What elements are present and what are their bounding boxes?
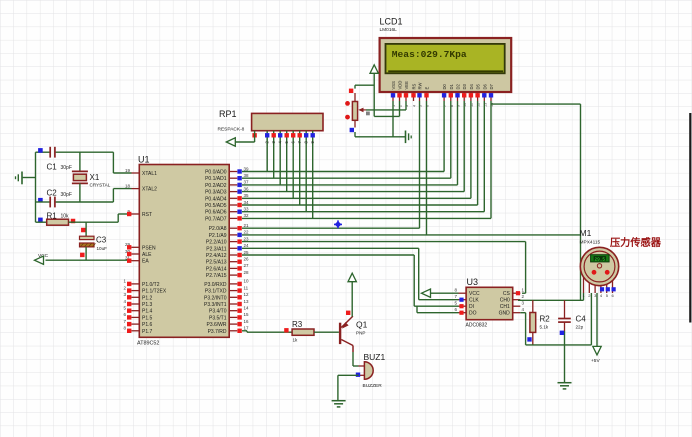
svg-text:24: 24 — [244, 243, 250, 248]
resistor pack RP1 — [218, 109, 324, 218]
svg-text:P1.6: P1.6 — [142, 322, 153, 328]
svg-text:CH1: CH1 — [500, 304, 510, 310]
svg-text:RP1: RP1 — [219, 109, 237, 119]
wire ground rail bottom — [526, 344, 592, 346]
svg-text:P0.7/AD7: P0.7/AD7 — [205, 216, 227, 222]
blue marker R1 row — [38, 218, 43, 223]
svg-text:30pF: 30pF — [61, 192, 72, 198]
svg-text:34: 34 — [244, 200, 250, 205]
svg-text:U1: U1 — [138, 155, 150, 165]
svg-text:P0.5/AD5: P0.5/AD5 — [205, 203, 227, 209]
svg-text:D4: D4 — [469, 83, 474, 89]
svg-text:PNP: PNP — [356, 331, 365, 336]
red marker C3 top — [81, 228, 86, 233]
red marker at Q1 emitter — [346, 311, 350, 315]
svg-text:P0.2/AD2: P0.2/AD2 — [205, 183, 227, 189]
svg-text:P3.7/RD: P3.7/RD — [208, 329, 227, 335]
junction marker (blue cross) — [334, 220, 342, 228]
resistor R1 — [36, 212, 70, 226]
wire P2.2 to U3 CS — [242, 242, 526, 294]
capacitor C3 — [80, 222, 108, 260]
svg-text:MPX4115: MPX4115 — [580, 240, 601, 246]
wire P3.7 to R3 — [242, 331, 292, 332]
op-amp U1 microcontroller AT89C52 — [123, 155, 249, 347]
svg-text:P2.6/A14: P2.6/A14 — [206, 266, 227, 272]
svg-text:X1: X1 — [90, 173, 100, 182]
LCD1 LM016L display — [380, 17, 512, 108]
svg-text:压力传感器: 压力传感器 — [610, 236, 662, 249]
svg-text:38: 38 — [244, 173, 250, 178]
wire R3 to Q1 base — [314, 331, 339, 333]
wire pot wiper to VEE — [366, 101, 406, 110]
wire to XTAL2 — [113, 189, 131, 202]
svg-text:P1.1/T2EX: P1.1/T2EX — [142, 289, 167, 295]
svg-text:D7: D7 — [489, 83, 494, 89]
red marker on R3 wire — [284, 328, 288, 332]
+5V power terminal — [591, 346, 601, 364]
svg-text:32: 32 — [244, 213, 250, 218]
wire U3 GND down — [520, 313, 525, 345]
svg-text:19: 19 — [125, 168, 131, 173]
svg-text:39: 39 — [244, 166, 250, 171]
svg-text:P0.3/AD3: P0.3/AD3 — [205, 190, 227, 196]
ground (right-facing, near LCD) — [406, 131, 412, 144]
power terminal at RP1 — [226, 138, 235, 146]
svg-text:CH0: CH0 — [500, 298, 510, 304]
svg-text:P1.7: P1.7 — [142, 329, 153, 335]
capacitor C2 — [47, 189, 72, 208]
blue marker C2 row — [38, 198, 43, 203]
wire sensor pin3 to +5V — [596, 293, 598, 347]
svg-text:12: 12 — [244, 292, 250, 297]
svg-text:1k: 1k — [293, 338, 299, 343]
svg-text:PSEN: PSEN — [142, 245, 156, 251]
svg-text:P0.6/AD6: P0.6/AD6 — [205, 210, 227, 216]
svg-text:R3: R3 — [292, 320, 303, 329]
wire P2.0 to LCD RW — [242, 101, 420, 228]
wire pot top to VDD net — [355, 85, 374, 88]
svg-text:C2: C2 — [47, 189, 58, 198]
svg-text:16: 16 — [244, 319, 250, 324]
svg-text:D6: D6 — [482, 83, 487, 89]
window border artifact right edge — [689, 113, 691, 323]
svg-text:RS: RS — [412, 83, 417, 89]
svg-text:11: 11 — [244, 285, 249, 290]
svg-text:Q1: Q1 — [356, 320, 368, 330]
svg-text:10k: 10k — [61, 214, 70, 220]
svg-text:CLK: CLK — [469, 298, 479, 304]
svg-text:10: 10 — [244, 279, 250, 284]
svg-text:U3: U3 — [467, 277, 479, 287]
svg-text:P3.6/WR: P3.6/WR — [206, 322, 226, 328]
svg-text:E: E — [425, 87, 430, 90]
buzzer BUZ1 — [359, 352, 386, 389]
svg-text:CS: CS — [503, 291, 511, 297]
svg-text:D1: D1 — [449, 83, 454, 89]
wire buzzer to ground — [338, 375, 359, 400]
svg-text:CRYSTAL: CRYSTAL — [90, 183, 111, 188]
svg-text:BUZZER: BUZZER — [363, 383, 383, 389]
power terminal at U3 VCC — [422, 289, 459, 297]
svg-text:22: 22 — [244, 230, 250, 235]
label pressure sensor (Chinese) — [610, 236, 662, 249]
svg-text:P2.3/A11: P2.3/A11 — [206, 246, 226, 252]
svg-text:R1: R1 — [47, 212, 58, 221]
resistor R3 — [292, 320, 314, 343]
svg-text:P3.0/RXD: P3.0/RXD — [204, 282, 227, 288]
wire P2.1 long row to sensor — [242, 234, 581, 236]
svg-text:VSS: VSS — [391, 81, 396, 90]
potentiometer RV1 (LCD contrast) — [345, 89, 370, 133]
wire analog node row — [518, 299, 584, 301]
blue marker at buzzer — [356, 373, 360, 377]
svg-text:D3: D3 — [462, 83, 467, 89]
svg-text:C1: C1 — [47, 163, 58, 172]
svg-text:P2.7/A15: P2.7/A15 — [206, 273, 227, 279]
wire DI-DO bracket — [417, 306, 459, 313]
blue marker at C4 bottom — [560, 331, 564, 335]
svg-text:26: 26 — [244, 257, 250, 262]
svg-text:GND: GND — [499, 311, 511, 317]
svg-text:P2.5/A13: P2.5/A13 — [206, 260, 227, 266]
svg-text:R2: R2 — [540, 315, 551, 324]
svg-text:RW: RW — [418, 83, 423, 90]
svg-text:ALE: ALE — [142, 252, 152, 258]
ground (below C4) — [558, 345, 572, 389]
svg-text:XTAL1: XTAL1 — [142, 171, 157, 177]
wire LCD D0-D6 verticals — [444, 101, 484, 212]
ground (below buzzer) — [332, 401, 346, 407]
svg-text:P1.3: P1.3 — [142, 302, 153, 308]
svg-text:P1.0/T2: P1.0/T2 — [142, 282, 160, 288]
wire RP1 common to terminal — [235, 131, 255, 142]
blue marker C1 row — [38, 148, 43, 153]
svg-text:36: 36 — [244, 186, 250, 191]
svg-text:VEE: VEE — [404, 81, 409, 90]
svg-text:27: 27 — [244, 263, 250, 268]
svg-text:VDD: VDD — [398, 81, 403, 90]
red marker R1-RST wire — [71, 219, 76, 224]
wire VSS down — [392, 101, 394, 137]
svg-text:P2.1/A9: P2.1/A9 — [209, 233, 227, 239]
svg-text:LCD1: LCD1 — [380, 17, 403, 27]
VCC power terminal — [35, 253, 132, 264]
wire to XTAL1 — [113, 152, 131, 173]
wire sensor pin2 to ground rail — [590, 293, 592, 345]
wire R1 to RST — [69, 214, 132, 222]
transistor Q1 — [339, 316, 368, 352]
wire P2.4 to U3 DI — [242, 255, 459, 306]
svg-text:LM016L: LM016L — [380, 27, 398, 33]
svg-text:P0.1/AD1: P0.1/AD1 — [205, 176, 227, 182]
svg-text:15: 15 — [244, 312, 250, 317]
blue marker at R2 bottom — [527, 337, 531, 341]
svg-text:EA: EA — [142, 259, 149, 265]
svg-text:P3.5/T1: P3.5/T1 — [209, 315, 227, 321]
svg-text:4: 4 — [413, 105, 417, 107]
capacitor C1 — [47, 147, 72, 172]
crystal X1 — [72, 152, 111, 202]
svg-text:37: 37 — [244, 180, 250, 185]
svg-text:ADC0832: ADC0832 — [466, 323, 488, 329]
svg-text:RESPACK-8: RESPACK-8 — [218, 127, 245, 133]
wire VDD down-left — [374, 101, 399, 116]
svg-text:BUZ1: BUZ1 — [364, 352, 386, 362]
svg-text:18: 18 — [125, 183, 131, 188]
svg-text:RST: RST — [142, 212, 152, 218]
svg-text:P1.5: P1.5 — [142, 315, 153, 321]
svg-text:P2.0/A8: P2.0/A8 — [209, 226, 227, 232]
svg-text:P0.4/AD4: P0.4/AD4 — [205, 196, 227, 202]
svg-text:DI: DI — [469, 304, 474, 310]
wire D7 to sensor branch — [491, 103, 581, 105]
svg-text:13: 13 — [244, 299, 250, 304]
svg-text:VCC: VCC — [469, 291, 480, 297]
svg-text:D5: D5 — [476, 83, 481, 89]
wire long vertical to sensor node — [580, 104, 582, 300]
svg-text:29.5: 29.5 — [595, 257, 606, 262]
svg-text:10uF: 10uF — [97, 246, 108, 251]
resistor R2 — [530, 300, 550, 345]
svg-text:21: 21 — [244, 223, 250, 228]
svg-text:DO: DO — [469, 311, 477, 317]
svg-text:D2: D2 — [456, 83, 461, 89]
op-amp U3 ADC0832 — [454, 277, 524, 329]
svg-text:35: 35 — [244, 193, 250, 198]
svg-text:C3: C3 — [96, 236, 107, 245]
svg-text:P2.2/A10: P2.2/A10 — [206, 240, 227, 246]
svg-text:P1.2: P1.2 — [142, 295, 153, 301]
wire pot bottom to ground rail — [355, 132, 406, 137]
wire LCD D7 vertical — [490, 101, 492, 218]
wire XTAL net bottom row (C2 row) — [36, 201, 114, 203]
svg-text:M1: M1 — [580, 228, 592, 238]
power terminal above Q1 — [348, 273, 356, 316]
wire LCD E vertical — [426, 101, 428, 235]
svg-text:P3.2/INT0: P3.2/INT0 — [204, 295, 227, 301]
svg-text:AT89C52: AT89C52 — [137, 341, 159, 347]
svg-text:P3.4/T0: P3.4/T0 — [209, 309, 227, 315]
svg-text:XTAL2: XTAL2 — [142, 187, 157, 193]
svg-text:D0: D0 — [442, 83, 447, 89]
wire sensor pin1 down — [583, 293, 585, 300]
wire Q1 collector to buzzer — [353, 352, 359, 366]
svg-text:17: 17 — [244, 326, 250, 331]
svg-text:33: 33 — [244, 207, 250, 212]
capacitor C4 — [558, 300, 586, 345]
svg-text:Meas:029.7Kpa: Meas:029.7Kpa — [392, 49, 467, 60]
wire left vertical — [35, 152, 37, 222]
red marker C3 bottom — [80, 253, 85, 258]
svg-text:25: 25 — [244, 250, 250, 255]
svg-text:C4: C4 — [576, 315, 587, 324]
svg-text:P3.3/INT1: P3.3/INT1 — [204, 302, 227, 308]
svg-text:5.1k: 5.1k — [540, 325, 549, 330]
wire P2.3 to U3 CLK — [242, 248, 459, 299]
svg-text:23: 23 — [244, 236, 250, 241]
svg-text:P3.1/TXD: P3.1/TXD — [205, 289, 227, 295]
svg-text:P2.4/A12: P2.4/A12 — [206, 253, 227, 259]
ground (left of crystal) — [16, 172, 36, 185]
wire P0 bus rows — [242, 172, 491, 219]
svg-text:+5V: +5V — [591, 358, 600, 364]
svg-text:P1.4: P1.4 — [142, 309, 153, 315]
svg-text:28: 28 — [244, 270, 250, 275]
svg-text:14: 14 — [244, 306, 250, 311]
svg-text:30pF: 30pF — [61, 165, 72, 171]
power terminal above pot — [370, 65, 378, 117]
wire XTAL net top row (C1 row) — [36, 151, 114, 153]
svg-text:22p: 22p — [576, 325, 584, 330]
svg-text:P0.0/AD0: P0.0/AD0 — [205, 170, 227, 176]
pressure sensor M1 MPX4115 — [580, 228, 619, 298]
